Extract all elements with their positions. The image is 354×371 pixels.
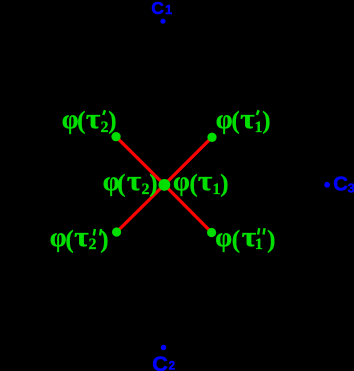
svg-text:φ: φ [62,104,79,134]
svg-text:2: 2 [89,236,97,253]
wire: red line center to upper-left vertex [116,137,164,185]
node: upper-left endpoint dot [111,132,120,141]
label C2 contour [152,351,175,371]
wire: red line center to upper-right vertex [164,137,212,185]
label phi(tau1-doubleprime) lower-right [215,222,275,254]
svg-text:): ) [267,227,275,254]
label C1 contour [151,0,172,18]
svg-text:(: ( [77,108,85,135]
node: blue dot on contour C2 [161,345,166,350]
label phi(tau2-doubleprime) lower-left [50,222,109,254]
svg-text:): ) [220,171,228,198]
node: blue dot on contour C1 [160,19,165,24]
label phi(tau2) left of center [103,166,158,198]
svg-text:φ: φ [215,222,232,252]
svg-text:τ: τ [86,104,101,135]
svg-text:C: C [151,0,164,18]
svg-text:φ: φ [173,166,190,196]
svg-text:2: 2 [169,361,175,371]
svg-text:τ: τ [240,104,255,135]
label phi(tau2-prime) upper-left [62,104,117,136]
svg-text:1: 1 [255,236,263,253]
svg-text:3: 3 [348,180,354,195]
wire: red line center to lower-right vertex [164,185,211,233]
svg-text:C: C [333,173,348,195]
node: lower-left endpoint dot [112,227,121,236]
node: upper-right endpoint dot [207,133,216,142]
label C3 contour [333,173,354,195]
svg-text:τ: τ [127,166,142,197]
label phi(tau1) right of center [173,166,229,198]
svg-text:τ: τ [198,166,213,197]
label phi(tau1-prime) upper-right [216,104,271,136]
svg-text:τ: τ [74,222,89,253]
svg-text:): ) [108,108,116,135]
svg-text:(: ( [189,171,197,198]
svg-text:(: ( [65,227,73,254]
svg-text:1: 1 [165,3,172,17]
svg-text:(: ( [117,171,125,198]
svg-text:): ) [262,108,270,135]
wire: red line center to lower-left vertex [117,185,165,232]
svg-text:C: C [152,351,168,371]
svg-text:φ: φ [216,104,233,134]
svg-text:φ: φ [50,222,67,252]
node: lower-right endpoint dot [207,228,216,237]
svg-text:(: ( [231,108,239,135]
svg-text:): ) [149,171,157,198]
node: center interaction vertex dot [158,179,170,191]
svg-text:(: ( [232,227,240,254]
node: blue dot on contour C3 [324,182,330,188]
